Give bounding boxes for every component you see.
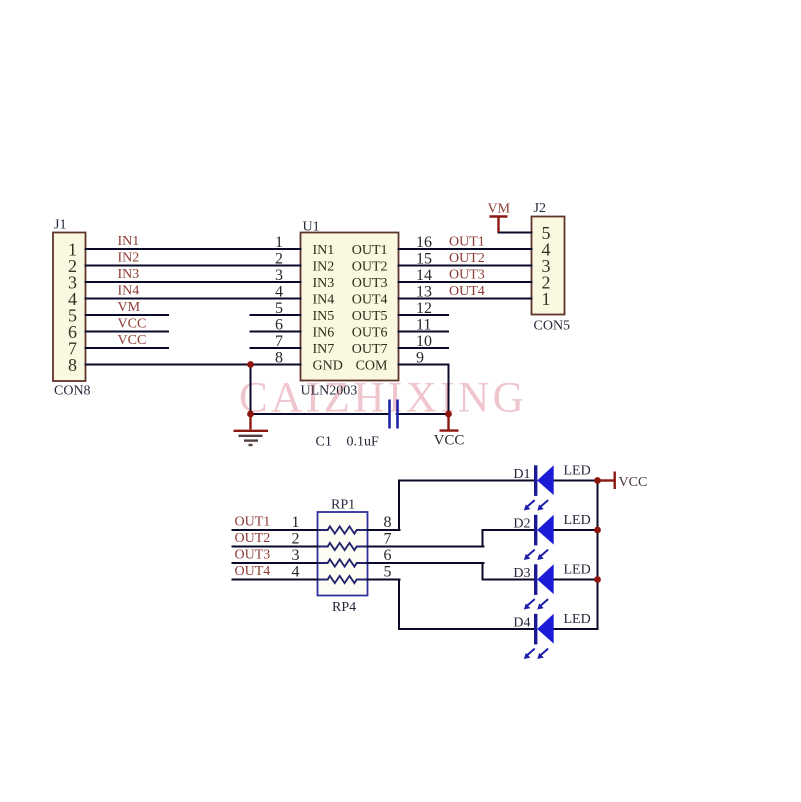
- svg-text:8: 8: [68, 355, 77, 375]
- svg-text:D3: D3: [513, 566, 530, 581]
- svg-text:6: 6: [275, 317, 283, 334]
- svg-text:VM: VM: [118, 300, 141, 315]
- svg-text:J2: J2: [534, 201, 546, 216]
- svg-text:3: 3: [292, 547, 300, 564]
- svg-text:VCC: VCC: [619, 475, 648, 490]
- svg-text:COM: COM: [356, 358, 388, 373]
- svg-text:15: 15: [416, 251, 432, 268]
- svg-text:IN5: IN5: [313, 309, 335, 324]
- svg-text:IN2: IN2: [313, 259, 335, 274]
- svg-text:OUT3: OUT3: [235, 548, 271, 563]
- svg-text:LED: LED: [564, 513, 591, 528]
- svg-text:CON8: CON8: [54, 384, 91, 399]
- svg-text:IN3: IN3: [118, 267, 140, 282]
- svg-text:IN4: IN4: [313, 292, 335, 307]
- svg-text:OUT1: OUT1: [352, 243, 388, 258]
- svg-text:OUT2: OUT2: [352, 259, 388, 274]
- svg-text:IN7: IN7: [313, 342, 335, 357]
- svg-text:6: 6: [384, 547, 392, 564]
- svg-text:OUT7: OUT7: [352, 342, 388, 357]
- svg-text:OUT4: OUT4: [235, 564, 271, 579]
- svg-text:OUT2: OUT2: [235, 531, 271, 546]
- svg-text:LED: LED: [564, 464, 591, 479]
- svg-text:IN6: IN6: [313, 325, 335, 340]
- svg-text:11: 11: [416, 317, 431, 334]
- svg-text:CON5: CON5: [534, 319, 571, 334]
- svg-text:C1: C1: [316, 435, 332, 450]
- svg-text:IN3: IN3: [313, 276, 335, 291]
- svg-text:IN1: IN1: [118, 234, 140, 249]
- svg-text:D4: D4: [513, 616, 530, 631]
- svg-text:VCC: VCC: [118, 333, 147, 348]
- svg-text:1: 1: [275, 234, 283, 251]
- svg-text:LED: LED: [564, 563, 591, 578]
- svg-text:D2: D2: [513, 517, 530, 532]
- svg-text:14: 14: [416, 267, 432, 284]
- svg-text:IN2: IN2: [118, 251, 140, 266]
- svg-text:LED: LED: [564, 612, 591, 627]
- svg-text:IN4: IN4: [118, 284, 140, 299]
- svg-text:OUT6: OUT6: [352, 325, 388, 340]
- svg-text:5: 5: [384, 564, 392, 581]
- svg-text:GND: GND: [313, 358, 343, 373]
- svg-text:D1: D1: [513, 467, 530, 482]
- svg-text:7: 7: [384, 531, 392, 548]
- svg-text:U1: U1: [303, 220, 320, 235]
- svg-text:4: 4: [275, 284, 283, 301]
- svg-text:OUT3: OUT3: [352, 276, 388, 291]
- svg-text:12: 12: [416, 300, 432, 317]
- svg-text:0.1uF: 0.1uF: [347, 435, 380, 450]
- svg-text:3: 3: [275, 267, 283, 284]
- svg-text:OUT5: OUT5: [352, 309, 388, 324]
- svg-text:ULN2003: ULN2003: [301, 384, 358, 399]
- svg-text:OUT1: OUT1: [235, 515, 271, 530]
- svg-text:OUT3: OUT3: [449, 268, 485, 283]
- svg-text:13: 13: [416, 284, 432, 301]
- svg-text:2: 2: [275, 251, 283, 268]
- svg-text:RP4: RP4: [332, 600, 356, 615]
- svg-text:OUT4: OUT4: [449, 284, 485, 299]
- svg-text:VM: VM: [488, 202, 511, 217]
- svg-text:2: 2: [292, 531, 300, 548]
- svg-text:5: 5: [275, 300, 283, 317]
- svg-text:10: 10: [416, 333, 432, 350]
- svg-text:1: 1: [542, 289, 551, 309]
- svg-text:16: 16: [416, 234, 432, 251]
- svg-text:OUT2: OUT2: [449, 251, 485, 266]
- svg-text:OUT4: OUT4: [352, 292, 388, 307]
- svg-text:8: 8: [384, 514, 392, 531]
- svg-text:4: 4: [292, 564, 300, 581]
- svg-text:IN1: IN1: [313, 243, 335, 258]
- svg-text:8: 8: [275, 350, 283, 367]
- svg-text:VCC: VCC: [118, 317, 147, 332]
- svg-text:RP1: RP1: [331, 498, 355, 513]
- svg-text:9: 9: [416, 350, 424, 367]
- svg-text:J1: J1: [54, 218, 66, 233]
- svg-text:7: 7: [275, 333, 283, 350]
- svg-text:OUT1: OUT1: [449, 235, 485, 250]
- svg-text:1: 1: [292, 514, 300, 531]
- svg-text:VCC: VCC: [434, 433, 465, 449]
